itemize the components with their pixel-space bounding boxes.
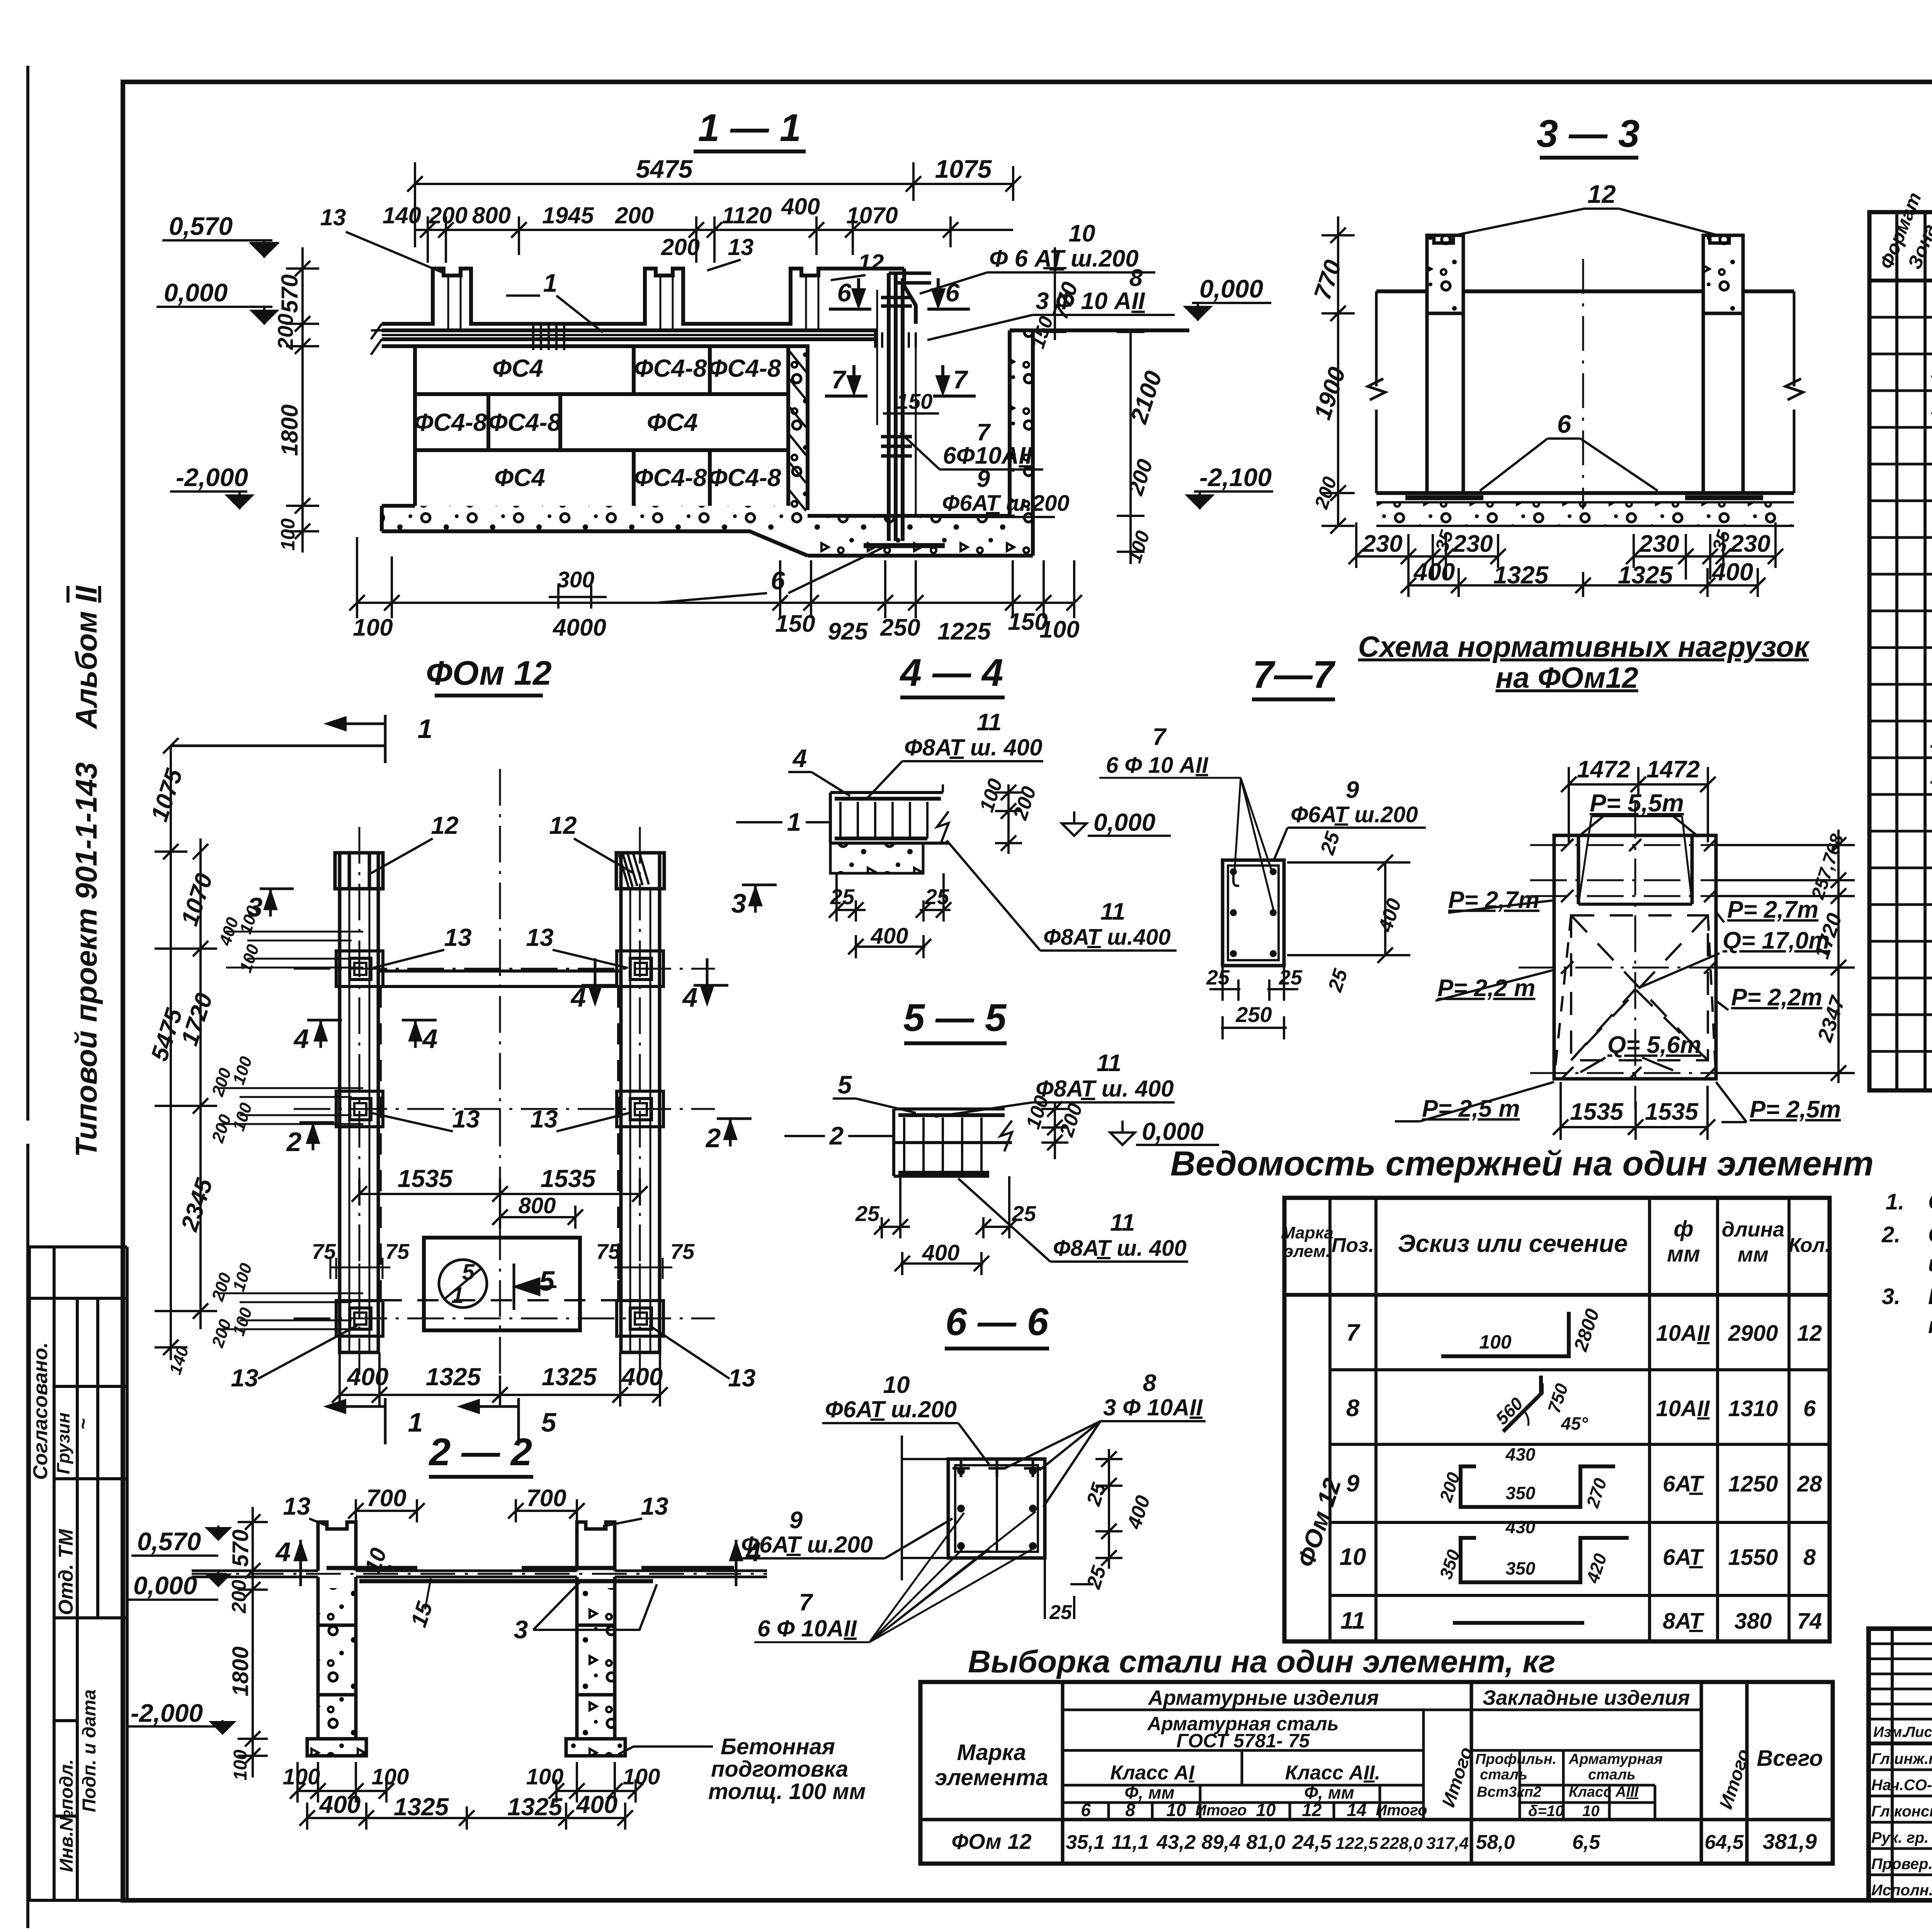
title block bbox=[1869, 1629, 1932, 1900]
svg-text:5: 5 bbox=[541, 1407, 557, 1437]
svg-text:10: 10 bbox=[1166, 1800, 1186, 1820]
svg-text:Лист: Лист bbox=[1904, 1724, 1932, 1740]
bottom dim chain bbox=[332, 1352, 668, 1406]
svg-text:12: 12 bbox=[1797, 1321, 1822, 1346]
svg-text:25: 25 bbox=[925, 884, 949, 909]
axes bbox=[1519, 802, 1739, 1109]
svg-text:Арматурные изделия: Арматурные изделия bbox=[1148, 1686, 1379, 1709]
svg-text:200: 200 bbox=[429, 202, 468, 228]
svg-text:100: 100 bbox=[623, 1764, 660, 1789]
pier squares row1 bbox=[336, 951, 663, 1336]
ground line bbox=[1376, 289, 1794, 293]
svg-text:6 — 6: 6 — 6 bbox=[946, 1300, 1049, 1344]
svg-text:0,000: 0,000 bbox=[164, 278, 228, 307]
svg-text:1325: 1325 bbox=[426, 1363, 481, 1391]
svg-text:1535: 1535 bbox=[398, 1165, 453, 1192]
left dim columns bbox=[155, 738, 217, 1360]
svg-text:75: 75 bbox=[596, 1239, 621, 1264]
svg-text:6 Ф 10 АII: 6 Ф 10 АII bbox=[1106, 753, 1209, 778]
svg-text:100: 100 bbox=[1479, 1331, 1512, 1353]
svg-text:Нач.СО-3: Нач.СО-3 bbox=[1871, 1777, 1932, 1794]
svg-text:74: 74 bbox=[1797, 1609, 1822, 1634]
svg-text:0,000: 0,000 bbox=[1094, 808, 1155, 836]
svg-text:Всего: Всего bbox=[1757, 1746, 1823, 1771]
slab double line bbox=[192, 1570, 767, 1572]
svg-text:1: 1 bbox=[418, 714, 433, 744]
svg-text:10АII: 10АII bbox=[1656, 1396, 1711, 1421]
svg-text:Q= 5,6т: Q= 5,6т bbox=[1607, 1032, 1701, 1058]
hook crosses at top bbox=[952, 1460, 1041, 1477]
top dim chain 5475/1075 bbox=[407, 162, 1021, 247]
svg-text:6: 6 bbox=[946, 278, 960, 307]
right dims bbox=[1045, 1449, 1122, 1619]
svg-text:6: 6 bbox=[1803, 1396, 1816, 1421]
bottom dim chain bbox=[349, 537, 1082, 618]
svg-text:9: 9 bbox=[1346, 1470, 1360, 1497]
svg-text:75: 75 bbox=[385, 1239, 410, 1264]
svg-text:1.: 1. bbox=[1886, 1189, 1904, 1214]
svg-text:7—7: 7—7 bbox=[1252, 653, 1336, 696]
top dim 1472 1472 bbox=[1561, 767, 1716, 842]
notes list bbox=[1881, 1189, 1932, 1338]
svg-text:13: 13 bbox=[728, 234, 754, 260]
svg-text:10: 10 bbox=[883, 1372, 910, 1398]
svg-text:100: 100 bbox=[230, 1750, 251, 1781]
mesh bars under piers bbox=[1405, 495, 1763, 500]
svg-text:1800: 1800 bbox=[228, 1646, 253, 1696]
svg-text:0,000: 0,000 bbox=[133, 1571, 197, 1600]
main section outline bbox=[371, 269, 1189, 556]
svg-text:200: 200 bbox=[661, 234, 700, 260]
svg-text:Изм.: Изм. bbox=[1873, 1724, 1906, 1740]
hatched walls concrete speckle bbox=[789, 347, 807, 509]
dims bbox=[1209, 855, 1410, 1039]
svg-text:длина: длина bbox=[1722, 1218, 1785, 1241]
svg-text:Класс АIII: Класс АIII bbox=[1569, 1784, 1639, 1800]
svg-text:6: 6 bbox=[771, 566, 786, 595]
left trim line bbox=[26, 66, 29, 1928]
svg-text:сталь: сталь bbox=[1480, 1767, 1527, 1783]
svg-text:5 — 5: 5 — 5 bbox=[903, 996, 1007, 1039]
left stamp table bbox=[29, 1247, 127, 1900]
svg-text:400: 400 bbox=[1711, 558, 1753, 586]
svg-text:элем.: элем. bbox=[1284, 1242, 1330, 1261]
svg-text:3: 3 bbox=[514, 1615, 528, 1644]
svg-text:Ф8АТ ш. 400: Ф8АТ ш. 400 bbox=[904, 735, 1043, 760]
anchor bolts under pedestal notches bbox=[448, 276, 818, 330]
svg-text:13: 13 bbox=[526, 923, 553, 951]
75 dims bbox=[312, 1239, 695, 1264]
svg-text:4: 4 bbox=[422, 1024, 438, 1054]
svg-text:43,2: 43,2 bbox=[1156, 1831, 1196, 1854]
svg-text:подготовка: подготовка bbox=[711, 1757, 848, 1782]
svg-text:10: 10 bbox=[1256, 1800, 1276, 1820]
svg-text:400: 400 bbox=[781, 194, 820, 219]
bottom dims row2 bbox=[1401, 568, 1765, 597]
svg-text:1: 1 bbox=[543, 269, 558, 297]
rebar thick bars bbox=[327, 1566, 734, 1570]
svg-text:1: 1 bbox=[408, 1407, 423, 1437]
svg-text:11: 11 bbox=[977, 709, 1002, 736]
svg-text:4: 4 bbox=[792, 744, 807, 772]
svg-text:25: 25 bbox=[830, 884, 855, 909]
svg-text:Гл.инж.пр.: Гл.инж.пр. bbox=[1871, 1750, 1932, 1767]
svg-text:Марка: Марка bbox=[1281, 1223, 1333, 1242]
svg-text:4: 4 bbox=[293, 1024, 309, 1054]
svg-text:25: 25 bbox=[855, 1201, 880, 1226]
svg-text:3.: 3. bbox=[1882, 1284, 1900, 1309]
rebar dots bbox=[957, 1467, 1037, 1550]
svg-text:10АII: 10АII bbox=[1656, 1321, 1711, 1346]
svg-text:Итого: Итого bbox=[1195, 1802, 1247, 1819]
svg-text:8: 8 bbox=[1143, 1370, 1156, 1396]
svg-text:ФС4: ФС4 bbox=[494, 464, 545, 492]
slab rebar ticks bbox=[533, 325, 564, 350]
bottom dims bbox=[874, 1176, 1017, 1275]
section 4-4 sketch bbox=[830, 784, 949, 873]
svg-text:100: 100 bbox=[283, 1764, 320, 1789]
bottom dims row2 bbox=[299, 1803, 633, 1830]
svg-text:400: 400 bbox=[319, 1791, 361, 1818]
svg-text:Подп. и дата: Подп. и дата bbox=[79, 1689, 100, 1812]
P/Q labels bbox=[1422, 887, 1841, 1123]
leader 13 to pedestal bbox=[346, 232, 866, 280]
right dim column bbox=[1718, 830, 1855, 1083]
svg-text:6АТ: 6АТ bbox=[1663, 1545, 1704, 1570]
svg-text:89,4: 89,4 bbox=[1201, 1831, 1240, 1854]
svg-text:100: 100 bbox=[353, 614, 393, 641]
svg-text:ФС4-8: ФС4-8 bbox=[708, 354, 781, 382]
svg-text:~: ~ bbox=[72, 1418, 94, 1430]
svg-text:Бетонная: Бетонная bbox=[721, 1734, 835, 1759]
svg-text:Грузин: Грузин bbox=[53, 1413, 73, 1475]
svg-text:элемента: элемента bbox=[935, 1765, 1048, 1790]
column rebar bbox=[864, 273, 945, 546]
svg-text:Ведомость стержней на один эле: Ведомость стержней на один элемент bbox=[1170, 1145, 1874, 1183]
svg-text:Ф6АТ ш.200: Ф6АТ ш.200 bbox=[825, 1396, 957, 1422]
svg-text:12: 12 bbox=[858, 250, 884, 276]
svg-text:1225: 1225 bbox=[937, 618, 991, 645]
svg-text:Ф8АТ ш. 400: Ф8АТ ш. 400 bbox=[1053, 1236, 1187, 1261]
svg-text:Ф8АТ ш.400: Ф8АТ ш.400 bbox=[1043, 925, 1171, 950]
svg-text:1070: 1070 bbox=[846, 202, 898, 228]
section 5-5 sketch bbox=[894, 1109, 1012, 1176]
svg-text:ФС4-8: ФС4-8 bbox=[708, 464, 781, 492]
svg-text:Эскиз или сечение: Эскиз или сечение bbox=[1398, 1230, 1628, 1257]
svg-text:10: 10 bbox=[1582, 1803, 1600, 1820]
left break bbox=[371, 324, 393, 355]
svg-text:6,5: 6,5 bbox=[1572, 1831, 1600, 1854]
svg-text:P= 2,7т: P= 2,7т bbox=[1448, 887, 1539, 913]
svg-text:Провер.: Провер. bbox=[1871, 1855, 1932, 1872]
svg-text:1535: 1535 bbox=[1570, 1099, 1624, 1125]
svg-text:1535: 1535 bbox=[1645, 1099, 1699, 1125]
left vertical dim line bbox=[286, 247, 319, 553]
svg-text:1535: 1535 bbox=[541, 1165, 596, 1192]
svg-text:11: 11 bbox=[1100, 898, 1125, 925]
svg-text:13: 13 bbox=[444, 923, 471, 951]
left pier bbox=[1427, 235, 1743, 493]
svg-text:1310: 1310 bbox=[1728, 1396, 1778, 1421]
corner ticks bbox=[1561, 839, 1716, 1079]
section 7-7 sketch: column section bbox=[1223, 860, 1284, 966]
axes dash-dot bbox=[294, 769, 715, 1406]
svg-text:122,5: 122,5 bbox=[1335, 1834, 1378, 1853]
svg-text:ФОм 12: ФОм 12 bbox=[426, 654, 552, 692]
svg-text:58,0: 58,0 bbox=[1476, 1831, 1515, 1854]
svg-text:4000: 4000 bbox=[552, 614, 606, 641]
svg-text:Ф8АТ ш. 400: Ф8АТ ш. 400 bbox=[1036, 1076, 1174, 1102]
svg-text:430: 430 bbox=[1505, 1444, 1536, 1464]
pit edges between strips bbox=[378, 971, 621, 986]
svg-text:9: 9 bbox=[1346, 777, 1359, 803]
svg-text:8: 8 bbox=[1346, 1395, 1360, 1422]
outer shape: side strips bbox=[1554, 816, 1716, 1079]
svg-text:230: 230 bbox=[1639, 531, 1679, 557]
svg-text:Марка: Марка bbox=[957, 1740, 1026, 1765]
svg-text:11: 11 bbox=[1110, 1209, 1135, 1236]
svg-text:Кол.: Кол. bbox=[1789, 1234, 1831, 1257]
svg-text:показаны.: показаны. bbox=[1928, 1313, 1932, 1338]
svg-text:10: 10 bbox=[1069, 220, 1095, 247]
svg-text:Исполн.: Исполн. bbox=[1871, 1882, 1932, 1899]
svg-text:13: 13 bbox=[728, 1364, 755, 1392]
svg-text:13: 13 bbox=[1930, 764, 1932, 789]
svg-text:35,1: 35,1 bbox=[1066, 1831, 1105, 1854]
svg-text:Типовой проект 901-1-143 Ал: Типовой проект 901-1-143 Альбом II bbox=[69, 585, 103, 1157]
svg-text:Схема нормативных нагрузок: Схема нормативных нагрузок bbox=[1358, 631, 1810, 663]
detail box 5/1 bbox=[424, 1238, 580, 1330]
svg-text:1325: 1325 bbox=[507, 1793, 563, 1821]
svg-text:5: 5 bbox=[462, 1260, 475, 1285]
svg-text:P= 2,5т: P= 2,5т bbox=[1750, 1096, 1841, 1123]
svg-text:430: 430 bbox=[1505, 1517, 1536, 1537]
svg-text:7: 7 bbox=[977, 419, 991, 446]
svg-text:14: 14 bbox=[1347, 1800, 1366, 1820]
svg-text:45°: 45° bbox=[1561, 1413, 1588, 1434]
svg-text:1 — 1: 1 — 1 bbox=[698, 106, 801, 150]
svg-text:Ф6АТ ш.200: Ф6АТ ш.200 bbox=[741, 1532, 873, 1558]
svg-text:0,000: 0,000 bbox=[1142, 1117, 1204, 1145]
svg-text:2: 2 bbox=[705, 1123, 721, 1153]
svg-text:Ф6АТ ш.200: Ф6АТ ш.200 bbox=[1291, 802, 1418, 827]
svg-text:Ф6АТ ш.200: Ф6АТ ш.200 bbox=[942, 491, 1070, 516]
svg-text:ФС4: ФС4 bbox=[647, 408, 698, 436]
svg-text:11,1: 11,1 bbox=[1111, 1831, 1149, 1854]
svg-text:мм: мм bbox=[1738, 1243, 1769, 1266]
svg-text:0,570: 0,570 bbox=[137, 1527, 201, 1556]
svg-text:400: 400 bbox=[576, 1791, 618, 1818]
svg-text:P= 2,2т: P= 2,2т bbox=[1731, 984, 1822, 1011]
section cut marks 6 bbox=[832, 278, 969, 394]
700 dims bbox=[348, 1499, 585, 1534]
block wall outline bbox=[415, 346, 788, 506]
dim chain 2 bbox=[415, 216, 1013, 263]
svg-text:200: 200 bbox=[273, 314, 298, 350]
svg-text:25: 25 bbox=[1206, 966, 1230, 989]
svg-text:3 — 3: 3 — 3 bbox=[1537, 112, 1640, 155]
svg-text:400: 400 bbox=[922, 1240, 960, 1265]
svg-text:230: 230 bbox=[1730, 531, 1770, 557]
svg-text:1325: 1325 bbox=[1493, 561, 1549, 589]
svg-text:25: 25 bbox=[1279, 966, 1303, 989]
svg-text:Отд. ТМ: Отд. ТМ bbox=[55, 1529, 77, 1615]
svg-text:800: 800 bbox=[519, 1193, 556, 1218]
svg-text:Класс АI: Класс АI bbox=[1110, 1762, 1195, 1784]
vertical dim bbox=[238, 1507, 268, 1777]
svg-text:2 — 2: 2 — 2 bbox=[429, 1430, 532, 1474]
svg-text:ГОСТ 5781- 75: ГОСТ 5781- 75 bbox=[1177, 1730, 1310, 1752]
svg-text:4 — 4: 4 — 4 bbox=[900, 651, 1003, 694]
svg-text:228,0: 228,0 bbox=[1380, 1834, 1423, 1853]
svg-text:Гл.констр.: Гл.констр. bbox=[1871, 1803, 1932, 1820]
svg-text:13: 13 bbox=[283, 1492, 310, 1520]
footing bbox=[382, 506, 808, 556]
svg-text:350: 350 bbox=[1506, 1558, 1536, 1578]
svg-text:100: 100 bbox=[277, 518, 299, 551]
svg-text:ФС4-8: ФС4-8 bbox=[488, 408, 561, 436]
svg-text:9: 9 bbox=[977, 466, 990, 492]
svg-text:200: 200 bbox=[228, 1580, 250, 1614]
svg-text:700: 700 bbox=[526, 1485, 566, 1512]
svg-text:мм: мм bbox=[1667, 1242, 1700, 1267]
svg-text:570: 570 bbox=[228, 1529, 253, 1567]
svg-text:8: 8 bbox=[1129, 265, 1143, 291]
svg-text:1550: 1550 bbox=[1728, 1545, 1778, 1570]
bottom dims row1 bbox=[1349, 522, 1783, 580]
right dims bbox=[1041, 1101, 1068, 1159]
svg-text:1472: 1472 bbox=[1646, 756, 1700, 783]
svg-text:2900: 2900 bbox=[1728, 1321, 1778, 1346]
svg-text:Класс АII.: Класс АII. bbox=[1285, 1762, 1380, 1784]
dims 1535 1535 800 bbox=[352, 1179, 648, 1229]
svg-text:ФС4-8: ФС4-8 bbox=[634, 464, 707, 492]
svg-text:317,4: 317,4 bbox=[1426, 1834, 1469, 1853]
svg-text:380: 380 bbox=[1735, 1609, 1772, 1634]
piers bbox=[307, 1522, 625, 1756]
svg-text:1075: 1075 bbox=[935, 155, 992, 183]
svg-text:28: 28 bbox=[1797, 1471, 1822, 1497]
svg-text:0,000: 0,000 bbox=[1199, 274, 1263, 303]
svg-text:570: 570 bbox=[277, 274, 303, 313]
svg-text:75: 75 bbox=[312, 1239, 336, 1264]
svg-text:150: 150 bbox=[775, 611, 815, 637]
svg-text:12: 12 bbox=[1930, 728, 1932, 753]
svg-text:ФС4-8: ФС4-8 bbox=[634, 354, 707, 382]
svg-text:13: 13 bbox=[231, 1364, 258, 1392]
svg-text:10: 10 bbox=[1340, 1544, 1366, 1570]
svg-text:1: 1 bbox=[787, 808, 801, 836]
svg-text:9: 9 bbox=[789, 1507, 803, 1534]
svg-text:ФС4-8: ФС4-8 bbox=[414, 408, 487, 436]
svg-text:25: 25 bbox=[1049, 1601, 1072, 1624]
svg-text:Общие указания см лист КЖ-1 и: Общие указания см лист КЖ-1 и КЖ-10. bbox=[1928, 1189, 1932, 1214]
center axis bbox=[1582, 259, 1584, 509]
small dims near squares bbox=[166, 903, 263, 1377]
strip footings bbox=[335, 853, 664, 1352]
svg-text:24,5: 24,5 bbox=[1292, 1831, 1332, 1854]
svg-text:6: 6 bbox=[837, 278, 852, 307]
svg-text:1800: 1800 bbox=[277, 405, 303, 456]
svg-text:13: 13 bbox=[320, 204, 346, 230]
svg-text:6: 6 bbox=[1557, 410, 1572, 438]
svg-text:7: 7 bbox=[1153, 724, 1167, 750]
svg-text:1325: 1325 bbox=[1618, 561, 1673, 589]
svg-text:100: 100 bbox=[372, 1764, 409, 1789]
svg-text:Профильн.: Профильн. bbox=[1475, 1751, 1556, 1767]
svg-text:25: 25 bbox=[1012, 1201, 1036, 1226]
svg-text:-2,100: -2,100 bbox=[1199, 463, 1272, 492]
svg-text:4: 4 bbox=[570, 982, 586, 1012]
svg-text:1250: 1250 bbox=[1728, 1471, 1778, 1497]
svg-text:700: 700 bbox=[366, 1485, 406, 1512]
svg-text:1945: 1945 bbox=[542, 202, 594, 228]
svg-text:1120: 1120 bbox=[722, 202, 772, 228]
svg-text:6: 6 bbox=[1081, 1800, 1091, 1820]
svg-text:Закладные изделия: Закладные изделия bbox=[1483, 1686, 1690, 1709]
svg-text:0,570: 0,570 bbox=[169, 212, 233, 240]
svg-text:6АТ: 6АТ bbox=[1663, 1471, 1704, 1497]
svg-text:230: 230 bbox=[1362, 531, 1402, 557]
svg-text:12: 12 bbox=[549, 811, 577, 839]
ground/pedestal profile bbox=[382, 269, 904, 324]
svg-text:сталь: сталь bbox=[1588, 1767, 1636, 1783]
svg-text:8АТ: 8АТ bbox=[1663, 1609, 1704, 1634]
svg-text:1: 1 bbox=[451, 1283, 464, 1308]
svg-text:цементном растворе марки 50.: цементном растворе марки 50. bbox=[1928, 1251, 1932, 1276]
bottom dims bbox=[829, 873, 951, 958]
svg-text:350: 350 bbox=[1506, 1483, 1536, 1503]
svg-text:2: 2 bbox=[829, 1121, 844, 1150]
svg-text:7: 7 bbox=[1346, 1320, 1361, 1346]
svg-text:1325: 1325 bbox=[542, 1363, 597, 1391]
svg-text:250: 250 bbox=[880, 614, 920, 641]
svg-text:11: 11 bbox=[1097, 1050, 1121, 1077]
svg-text:В плане фундамента сетки поз.: В плане фундамента сетки поз. 3;4 и 6 ус… bbox=[1928, 1284, 1932, 1309]
svg-text:6 Ф 10АII: 6 Ф 10АII bbox=[757, 1616, 857, 1641]
inner dashed rect with diagonals bbox=[1554, 915, 1716, 1079]
svg-text:12: 12 bbox=[431, 811, 458, 839]
svg-text:3: 3 bbox=[731, 888, 747, 918]
svg-text:ф: ф bbox=[1673, 1216, 1693, 1242]
svg-text:2: 2 bbox=[286, 1127, 302, 1157]
svg-text:Сборные бетонные блоки фундаме: Сборные бетонные блоки фундамента уложит… bbox=[1928, 1222, 1932, 1247]
svg-text:Поз.: Поз. bbox=[1332, 1234, 1374, 1257]
svg-text:Согласовано.: Согласовано. bbox=[29, 1342, 52, 1480]
svg-text:-2,000: -2,000 bbox=[176, 463, 248, 492]
svg-text:4: 4 bbox=[275, 1537, 291, 1567]
svg-text:8: 8 bbox=[1125, 1800, 1135, 1820]
side verticals with break bbox=[1368, 291, 1385, 493]
svg-text:250: 250 bbox=[1235, 1002, 1272, 1027]
svg-text:δ=10: δ=10 bbox=[1528, 1803, 1564, 1820]
svg-text:925: 925 bbox=[828, 618, 868, 645]
svg-text:11: 11 bbox=[1340, 1607, 1365, 1634]
svg-text:8: 8 bbox=[1803, 1545, 1816, 1570]
slab double lines bbox=[382, 330, 877, 346]
right dims bbox=[995, 784, 1022, 854]
svg-text:3 Ф 10АII: 3 Ф 10АII bbox=[1103, 1395, 1203, 1420]
svg-text:140: 140 bbox=[383, 202, 421, 228]
svg-text:толщ. 100 мм: толщ. 100 мм bbox=[708, 1779, 866, 1804]
svg-text:2.: 2. bbox=[1881, 1222, 1900, 1247]
svg-text:Выборка стали на один элем: Выборка стали на один элемент, кг bbox=[968, 1644, 1556, 1679]
bottom dim 1535 1535 bbox=[1553, 1082, 1715, 1140]
bottom dims row1 bbox=[290, 1762, 643, 1803]
svg-text:75: 75 bbox=[670, 1239, 695, 1264]
svg-text:13: 13 bbox=[452, 1105, 480, 1133]
svg-text:7: 7 bbox=[832, 365, 847, 394]
